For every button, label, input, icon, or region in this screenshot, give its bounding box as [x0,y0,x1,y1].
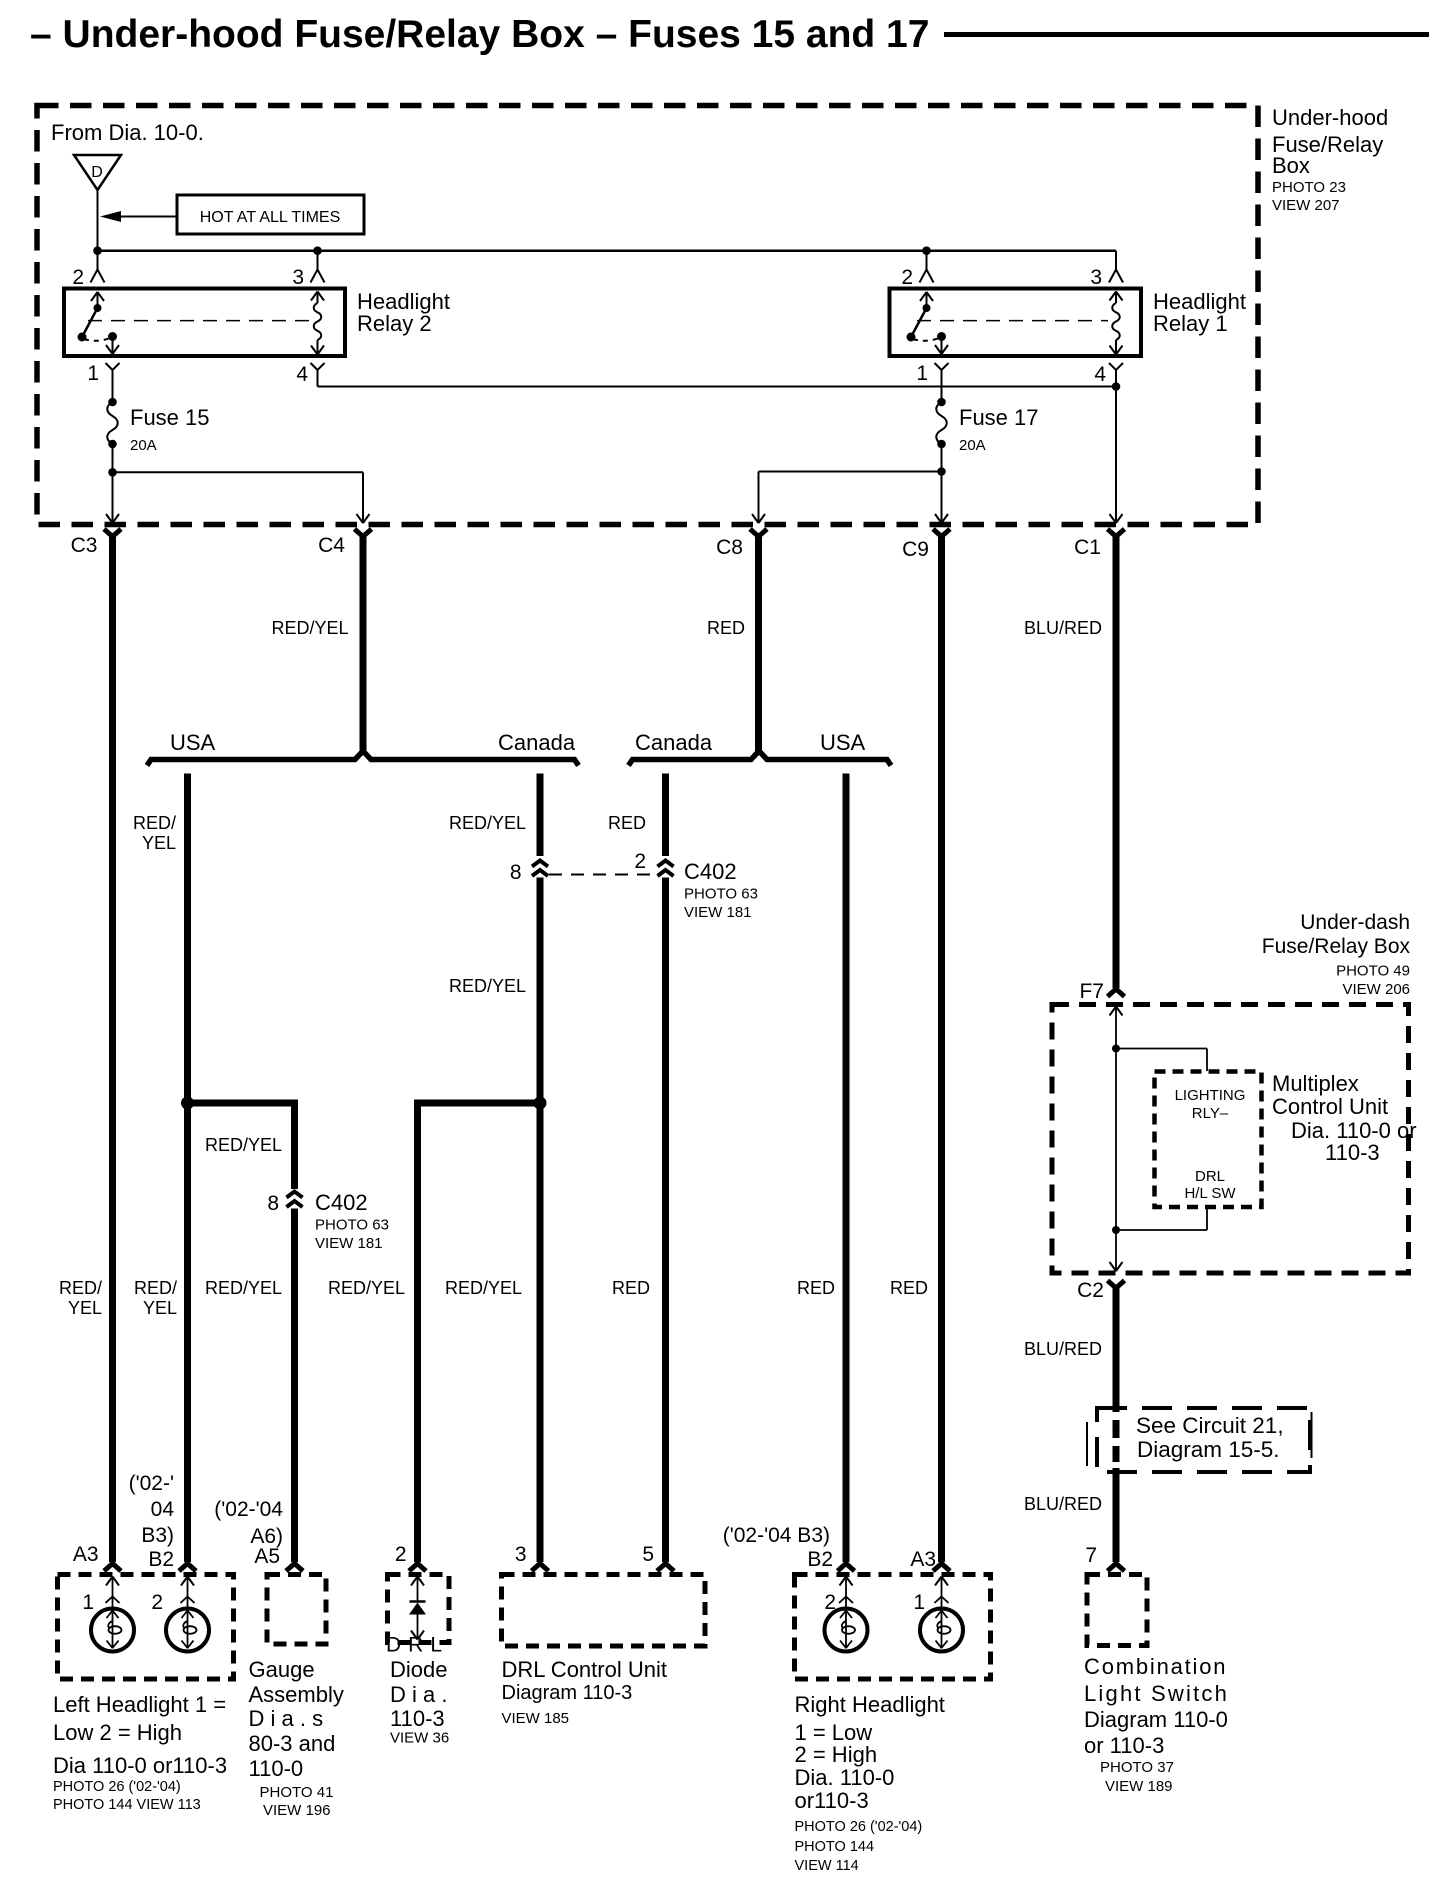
branch to lighting relay (lower) [1116,1208,1207,1231]
svg-text:VIEW 206: VIEW 206 [1342,981,1410,998]
svg-text:RED/YEL: RED/YEL [328,1278,405,1298]
svg-text:Canada: Canada [635,730,713,755]
wire: junction to C4 drop [113,472,364,521]
title text [30,13,929,56]
svg-text:YEL: YEL [68,1298,102,1318]
('02-'04 B3) B2 label [129,1472,175,1571]
wire: fuse 17 to junction [941,444,943,472]
junction dot above relay2 pin3 [313,246,322,255]
LH pin 2 label [151,1591,163,1614]
wire: bus to relay2 pin3 [317,251,319,269]
BLU/RED label (above see-circuit) [1024,1339,1102,1359]
svg-text:Fuse 17: Fuse 17 [959,405,1039,430]
svg-text:B3): B3) [141,1524,174,1547]
svg-text:Left Headlight 1 =: Left Headlight 1 = [53,1692,226,1717]
svg-text:Assembly: Assembly [249,1682,344,1707]
wire: fuse 15 to junction [112,444,114,472]
relay K1 pin 2 chevron [920,270,934,283]
svg-text:RED/YEL: RED/YEL [449,813,526,833]
svg-text:RLY–: RLY– [1192,1105,1229,1122]
svg-text:8: 8 [510,861,522,884]
RED/ YEL label (B2 bottom) [134,1278,177,1318]
svg-text:Relay 2: Relay 2 [357,311,432,336]
relay K2 pin 4 chevron [311,363,325,370]
svg-text:B2: B2 [807,1548,833,1571]
svg-text:See Circuit 21,: See Circuit 21, [1136,1413,1284,1438]
diode D1 [409,1577,426,1640]
svg-text:C3: C3 [71,534,98,557]
Canada label (right) [635,730,713,755]
combination light switch box (dashed) [1087,1575,1147,1646]
connector C4 label [318,534,345,557]
gauge assembly box (dashed) [267,1575,326,1645]
right headlight label [795,1692,945,1874]
svg-text:5: 5 [642,1543,654,1566]
svg-text:DRL Control Unit: DRL Control Unit [502,1657,667,1682]
wire: triangle to bus [97,190,99,269]
svg-text:4: 4 [1094,363,1106,386]
svg-text:Box: Box [1272,153,1310,178]
connector C402 pin 2 (inline) [634,850,673,876]
under-dash box label [1262,911,1411,998]
arrow into C3 [106,514,119,523]
wire: junction to C8 drop [759,472,942,522]
connector C3 [104,529,121,537]
F7 label [1079,980,1104,1003]
svg-text:VIEW 189: VIEW 189 [1105,1778,1173,1795]
wire: bus to relay1 pin2 [926,251,928,269]
under-hood fuse/relay box (dashed) [37,106,1258,525]
svg-text:Light Switch: Light Switch [1084,1681,1229,1706]
wire: relay K1 pin4 down to C1 [1115,370,1117,521]
wire: relay K2 pin4 to relay K1 pin4 [318,370,1117,387]
svg-text:BLU/RED: BLU/RED [1024,1494,1102,1514]
relay K2 label [357,289,450,336]
arrow into C1 [1110,514,1123,523]
svg-text:Combination: Combination [1084,1654,1227,1679]
junction dot below fuse 15 [108,468,117,477]
LH pin 1 label [82,1591,94,1614]
RED label (C8) [707,618,745,638]
LH bulb 2 (high beam) [166,1609,209,1652]
A3 label (left headlight) [73,1543,99,1566]
junction dot lower (under-dash) [1112,1226,1120,1234]
svg-text:Gauge: Gauge [249,1657,315,1682]
junction dot above relay1 pin2 [922,246,931,255]
svg-text:From Dia. 10-0.: From Dia. 10-0. [51,120,204,145]
relay K1 pin 1 chevron [935,363,949,370]
svg-text:– Under-hood Fuse/Relay Box –: – Under-hood Fuse/Relay Box – Fuses 15 a… [30,13,929,56]
relay K1 pin 4 chevron [1109,363,1123,370]
wire C8 to bracket [755,536,762,751]
svg-text:RED/YEL: RED/YEL [271,618,348,638]
svg-text:Dia 110-0 or110-3: Dia 110-0 or110-3 [53,1753,227,1778]
svg-text:('02-': ('02-' [129,1472,174,1495]
svg-text:HOT AT ALL TIMES: HOT AT ALL TIMES [200,209,341,226]
USA label (left) [170,730,216,755]
RH bulb 1 (low beam) [920,1609,963,1652]
RED/YEL label (drop, above C402) [449,813,526,833]
connector diode pin2 chevron [409,1564,426,1572]
svg-text:RED/YEL: RED/YEL [205,1278,282,1298]
wire: USA2 drop to right headlight B2 [843,774,850,1563]
svg-text:D i a . s: D i a . s [249,1706,324,1731]
svg-text:RED: RED [707,618,745,638]
DRL clipped text [386,1634,449,1657]
svg-text:3: 3 [292,266,304,289]
svg-text:4: 4 [296,363,308,386]
fuse 15 label [130,405,210,454]
wire C3 (RED/YEL) [109,536,116,1562]
svg-text:110-3: 110-3 [1325,1140,1380,1165]
svg-text:A3: A3 [73,1543,99,1566]
svg-text:PHOTO 37: PHOTO 37 [1100,1759,1174,1776]
svg-text:Low 2 = High: Low 2 = High [53,1720,182,1745]
svg-text:PHOTO 26 ('02-'04): PHOTO 26 ('02-'04) [53,1779,181,1795]
svg-text:LIGHTING: LIGHTING [1175,1087,1246,1104]
DRL control unit box (dashed) [502,1575,706,1647]
svg-text:VIEW 181: VIEW 181 [684,904,752,921]
connector C402 pin 8 (inline) [510,861,548,885]
svg-text:Fuse/Relay Box: Fuse/Relay Box [1262,935,1411,958]
dashed link C402 [549,874,656,876]
relay K1 linkage (dashed) [917,320,1108,322]
svg-text:VIEW 114: VIEW 114 [795,1858,859,1874]
connector C3 label [71,534,98,557]
RED label (DRL5 bottom) [612,1278,650,1298]
svg-text:PHOTO 41: PHOTO 41 [260,1784,334,1801]
RED/ YEL label (drop B2) [133,813,176,853]
svg-text:Diagram 110-0: Diagram 110-0 [1084,1707,1228,1732]
DRL pin 5 label [642,1543,654,1566]
title rule [944,32,1429,37]
C2 label [1077,1279,1104,1302]
RH pin 1 label [913,1591,925,1614]
bus wire (hot feed) [98,249,1117,252]
wire: relay K2 pin1 to fuse 15 [112,370,114,402]
wire inside under-dash box [1110,1007,1123,1272]
RH pin 2 label [824,1591,836,1614]
svg-text:PHOTO 63: PHOTO 63 [684,886,758,903]
svg-text:PHOTO 144: PHOTO 144 [795,1839,875,1855]
relay K1 label [1153,289,1246,336]
svg-text:D: D [91,164,103,181]
svg-text:A5: A5 [254,1545,280,1568]
svg-text:Control Unit: Control Unit [1272,1094,1388,1119]
HOT AT ALL TIMES box [177,195,364,234]
node D (power triangle) [74,155,121,190]
see circuit 21 label [1136,1413,1284,1462]
svg-text:2: 2 [634,850,646,873]
connector DRL pin3 chevron [532,1564,549,1572]
relay K2 switch arm [78,292,120,354]
DRL H/L SW label [1184,1168,1236,1202]
relay K2 coil [311,292,324,355]
connector DRL pin5 chevron [657,1564,674,1572]
svg-text:Relay 1: Relay 1 [1153,311,1228,336]
svg-text:1: 1 [916,362,928,385]
arrow: hot-at-all-times to wire [100,211,177,222]
relay K1 pin 4 label [1094,363,1106,386]
('02-'04 A6) A5 label [214,1498,283,1568]
connector C402 pin 8 (gauge branch) [267,1192,302,1216]
svg-text:C4: C4 [318,534,345,557]
relay K2 pin 2 chevron [91,270,105,283]
wire: bus corner to relay1 pin3 [1115,251,1117,269]
RED/YEL label (below C402) [449,976,526,996]
right headlight box (dashed) [795,1575,991,1680]
svg-text:04: 04 [151,1498,175,1521]
svg-text:C8: C8 [716,536,743,559]
('02-'04 B3) label (right) [723,1524,830,1547]
svg-text:2: 2 [395,1543,407,1566]
connector C9 label [902,538,929,561]
svg-text:BLU/RED: BLU/RED [1024,618,1102,638]
svg-text:8: 8 [267,1192,279,1215]
RED/YEL label (diode bottom) [328,1278,405,1298]
wire C1 to F7 [1113,536,1120,988]
B2 label (RH) [807,1548,833,1571]
wire: Canada2 drop upper [662,774,669,857]
svg-text:C1: C1 [1074,536,1101,559]
svg-text:D i a .: D i a . [390,1682,447,1707]
svg-text:RED: RED [797,1278,835,1298]
svg-text:RED: RED [608,813,646,833]
connector C8 [750,529,767,537]
A3 label (RH) [910,1548,936,1571]
svg-text:VIEW 207: VIEW 207 [1272,197,1340,214]
fuse 17 label [959,405,1039,454]
BLU/RED label (C1) [1024,618,1102,638]
svg-text:1: 1 [82,1591,94,1614]
svg-text:RED/YEL: RED/YEL [445,1278,522,1298]
svg-text:PHOTO 26 ('02-'04): PHOTO 26 ('02-'04) [795,1819,923,1835]
relay K2 pin 3 label [292,266,304,289]
svg-text:20A: 20A [130,437,157,454]
svg-text:2 = High: 2 = High [795,1742,878,1767]
svg-text:PHOTO 49: PHOTO 49 [1336,963,1410,980]
svg-text:B2: B2 [148,1548,174,1571]
RED label (RH B2 bottom) [797,1278,835,1298]
relay K2 linkage (dashed) [88,320,310,322]
LH bulb 2 entry [181,1577,195,1609]
svg-text:VIEW 185: VIEW 185 [502,1710,570,1727]
svg-text:VIEW 36: VIEW 36 [390,1730,449,1747]
wire: Canada drop to DRL pin3 (upper) [537,774,544,857]
LH bulb 1 (low beam) [91,1609,134,1652]
connector pin 7 chevron [1108,1564,1125,1572]
svg-text:PHOTO 23: PHOTO 23 [1272,179,1346,196]
svg-text:2: 2 [901,266,913,289]
wire: C402 to gauge assembly A5 [291,1209,298,1563]
wire C4 to bracket [360,536,367,751]
connector C2 [1108,1281,1125,1289]
USA label (right) [820,730,866,755]
svg-text:A3: A3 [910,1548,936,1571]
fuse F15 [107,398,118,449]
left headlight box (dashed) [58,1575,234,1680]
combination light switch label [1084,1654,1229,1795]
svg-text:H/L SW: H/L SW [1184,1185,1236,1202]
RED/YEL label (gauge bottom) [205,1278,282,1298]
junction dot upper (under-dash) [1112,1045,1120,1053]
svg-text:USA: USA [170,730,216,755]
svg-text:Under-hood: Under-hood [1272,105,1388,130]
svg-text:3: 3 [515,1543,527,1566]
arrow into C9 [935,514,948,523]
LH bulb 1 entry [106,1577,120,1609]
DRL pin 3 label [515,1543,527,1566]
branch wire to gauge assembly [188,1103,295,1189]
wire: C402 to junction [537,878,544,1104]
diode label [390,1657,449,1747]
pin 7 label [1085,1544,1097,1567]
wire: Canada2 drop to DRL pin5 [662,878,669,1563]
svg-text:F7: F7 [1079,980,1104,1003]
junction dot on Canada drop [534,1097,547,1110]
relay K2 pin 1 chevron [106,363,120,370]
RED/ YEL label (C3 bottom) [59,1278,102,1318]
bracket: Canada/USA split 2 [629,751,892,766]
diode box (dashed) [388,1575,450,1643]
svg-text:Canada: Canada [498,730,576,755]
RED/YEL label (C4) [271,618,348,638]
svg-text:Right Headlight: Right Headlight [795,1692,945,1717]
svg-text:Diode: Diode [390,1657,447,1682]
svg-text:110-3: 110-3 [390,1706,445,1731]
svg-text:RED/YEL: RED/YEL [449,976,526,996]
headlight relay 2 box [64,289,345,357]
relay K1 pin 3 chevron [1109,270,1123,283]
svg-text:('02-'04: ('02-'04 [214,1498,283,1521]
svg-text:Fuse 15: Fuse 15 [130,405,210,430]
RH bulb 2 entry [839,1577,853,1609]
svg-text:Diagram 110-3: Diagram 110-3 [502,1682,633,1704]
branch to lighting relay (upper) [1116,1049,1207,1072]
svg-text:3: 3 [1090,266,1102,289]
DRL control unit label [502,1657,667,1727]
arrow into C8 [752,514,765,523]
connector C1 [1108,529,1125,537]
see circuit 21 box (dashed) [1087,1408,1312,1472]
connector A5 chevron [286,1564,303,1572]
relay K2 pin 2 label [72,266,84,289]
RH bulb 1 entry [935,1577,949,1609]
svg-text:7: 7 [1085,1544,1097,1567]
svg-text:C9: C9 [902,538,929,561]
connector C9 [933,529,950,537]
svg-text:RED: RED [890,1278,928,1298]
svg-text:USA: USA [820,730,866,755]
svg-text:80-3 and: 80-3 and [249,1731,336,1756]
svg-text:C402: C402 [684,859,737,884]
svg-text:or110-3: or110-3 [795,1788,869,1813]
svg-text:Diagram 15-5.: Diagram 15-5. [1137,1437,1280,1462]
RH bulb 2 (high beam) [825,1609,868,1652]
relay K1 coil [1110,292,1123,355]
relay K1 pin 2 label [901,266,913,289]
relay K1 pin 1 label [916,362,928,385]
junction dot relay K1 pin4 [1112,382,1121,391]
relay K2 pin 3 chevron [311,270,325,283]
svg-text:20A: 20A [959,437,986,454]
wire C2 to combination switch (BLU/RED) [1113,1288,1120,1562]
bracket: USA/Canada split 1 [147,751,579,766]
svg-text:PHOTO 144 VIEW 113: PHOTO 144 VIEW 113 [53,1797,201,1813]
connector C4 [355,529,372,537]
connector A3 chevron (LH) [104,1564,121,1572]
Canada label (left) [498,730,576,755]
under-hood box label [1272,105,1388,214]
svg-text:DRL: DRL [1195,1168,1225,1185]
svg-text:RED: RED [612,1278,650,1298]
svg-text:C2: C2 [1077,1279,1104,1302]
connector F7 [1108,989,1125,997]
svg-text:1: 1 [913,1591,925,1614]
From Dia. 10-0. label [51,120,204,145]
svg-text:2: 2 [72,266,84,289]
relay K1 pin 3 label [1090,266,1102,289]
arrow into C4 [357,514,370,523]
svg-text:PHOTO 63: PHOTO 63 [315,1217,389,1234]
svg-text:YEL: YEL [143,1298,177,1318]
RED label (RH A3 bottom) [890,1278,928,1298]
BLU/RED label (below see-circuit) [1024,1494,1102,1514]
svg-text:BLU/RED: BLU/RED [1024,1339,1102,1359]
svg-text:1: 1 [87,362,99,385]
wire: USA drop to left headlight B2 [184,774,191,1563]
diode pin 2 label [395,1543,407,1566]
wire: junction down to C9 [941,472,943,522]
svg-text:RED/: RED/ [133,813,176,833]
C402 label (lower) [315,1190,389,1252]
svg-text:RED/: RED/ [134,1278,177,1298]
svg-text:RED/YEL: RED/YEL [205,1135,282,1155]
relay K2 pin 4 label [296,363,308,386]
multiplex control unit label [1272,1071,1417,1165]
svg-text:110-0: 110-0 [249,1756,304,1781]
connector C8 label [716,536,743,559]
multiplex control unit inner box (dashed) [1155,1072,1262,1208]
svg-text:Under-dash: Under-dash [1300,911,1410,934]
branch wire to diode [418,1103,541,1562]
svg-text:C402: C402 [315,1190,368,1215]
left headlight label [53,1692,227,1813]
svg-text:('02-'04 B3): ('02-'04 B3) [723,1524,830,1547]
svg-text:RED/: RED/ [59,1278,102,1298]
connector A3 chevron (RH) [933,1564,950,1572]
svg-text:2: 2 [151,1591,163,1614]
connector C1 label [1074,536,1101,559]
wire: junction down to C3 [112,472,114,521]
svg-text:Multiplex: Multiplex [1272,1071,1359,1096]
RED label (drop Canada2) [608,813,646,833]
RED/YEL label (gauge branch) [205,1135,282,1155]
under-dash fuse/relay box (dashed) [1052,1005,1409,1274]
C402 label (upper) [684,859,758,921]
svg-text:VIEW 181: VIEW 181 [315,1235,383,1252]
wire C9 (RED) [938,536,945,1562]
junction dot below fuse 17 [937,467,946,476]
relay K2 pin 1 label [87,362,99,385]
connector B2 chevron (LH) [179,1564,196,1572]
svg-text:VIEW 196: VIEW 196 [263,1802,331,1819]
junction dot on B2 drop [181,1097,194,1110]
connector B2 chevron (RH) [838,1564,855,1572]
wire: junction to DRL pin3 [537,1103,544,1562]
headlight relay 1 box [890,289,1142,357]
LIGHTING RLY- label [1175,1087,1246,1122]
